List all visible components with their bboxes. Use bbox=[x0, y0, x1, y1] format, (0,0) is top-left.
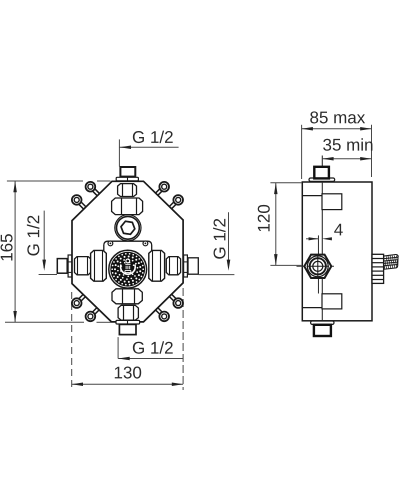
left G1/2 leader horizontal tick bbox=[39, 274, 57, 276]
octagonal plate outline bbox=[72, 181, 183, 322]
bottom-left compartment line bbox=[302, 307, 322, 309]
plug hex socket bbox=[121, 221, 135, 234]
left inlet: stub bbox=[57, 259, 67, 274]
bottom stub bbox=[119, 324, 136, 334]
bottom nut 1 bbox=[118, 305, 138, 320]
mounting ear TR-B bbox=[167, 199, 177, 209]
dimension 85 line with arrows bbox=[302, 128, 372, 130]
side bottom stub (thick) bbox=[314, 325, 331, 336]
bottom flange bbox=[116, 320, 140, 324]
left inlet: washer bbox=[68, 255, 72, 277]
label 4 bbox=[334, 224, 343, 236]
dimension 4 arrows bbox=[306, 238, 318, 240]
hex union bbox=[304, 255, 331, 278]
label G 1/2 (left, rotated) bbox=[27, 216, 39, 256]
hex union centerline horizontal bbox=[297, 265, 335, 267]
label 35 min bbox=[323, 138, 372, 150]
hex union centerline vertical bbox=[317, 235, 319, 293]
body rectangle bbox=[302, 182, 372, 321]
top fixing tab bbox=[322, 194, 342, 210]
label 85 max bbox=[310, 111, 365, 123]
central knob knurled annulus bbox=[110, 252, 145, 287]
valve body plate (rounded shoulders behind cartridge) bbox=[104, 241, 152, 266]
right stub bbox=[188, 258, 198, 274]
wall plane line bbox=[321, 156, 323, 321]
dimension 130 left extension line (dashed) bbox=[71, 292, 73, 390]
splined block bbox=[372, 254, 384, 283]
label 130 bbox=[115, 367, 141, 379]
dimension 165 line with arrows bbox=[14, 181, 16, 322]
label G 1/2 (bottom) bbox=[133, 341, 173, 353]
dimension 165 top extension line bbox=[7, 180, 83, 182]
bottom outlet: nut 2 (large) bbox=[112, 289, 142, 304]
label 120 (rotated) bbox=[258, 205, 270, 231]
top G1/2 leader horizontal line bbox=[119, 146, 178, 148]
mounting ear BR-B bbox=[156, 306, 166, 316]
dimension 165 bottom extension line bbox=[5, 321, 84, 323]
dimension 85 extension lines bbox=[301, 125, 303, 179]
dimension 120 line with arrows bbox=[275, 183, 277, 266]
right G1/2 leader horizontal tick bbox=[199, 274, 235, 276]
dimension 35 line with arrows bbox=[322, 158, 371, 160]
bottom fixing tab bbox=[322, 294, 342, 309]
label 165 (rotated) bbox=[1, 234, 13, 260]
label G 1/2 (top) bbox=[133, 131, 173, 143]
left nut A bbox=[75, 257, 91, 275]
screw left bbox=[108, 241, 113, 246]
dimension 130 line with arrows bbox=[72, 383, 183, 385]
central knob outer circle bbox=[109, 250, 147, 288]
top flange facet line bbox=[127, 178, 129, 181]
side top stub base bbox=[309, 178, 335, 181]
top nut 2 facets bbox=[121, 198, 123, 214]
spindle shaft (knurled) bbox=[384, 254, 398, 269]
top flange bbox=[116, 177, 138, 181]
top G1/2 leader arrowhead bbox=[119, 146, 131, 150]
top inlet stub bbox=[120, 167, 135, 177]
mounting ear BR-A bbox=[170, 292, 180, 302]
right outlet: nut B (coupling) bbox=[149, 250, 165, 281]
top nut 2 (large coupling) bbox=[112, 198, 143, 215]
side top stub (thick) bbox=[314, 167, 329, 179]
dimension 120 extension lines bbox=[270, 182, 302, 184]
top nut 1 facets bbox=[122, 184, 124, 197]
side bottom stub flange bbox=[311, 321, 334, 324]
top nut 1 bbox=[118, 184, 137, 197]
top G1/2 leader vertical line bbox=[118, 139, 120, 166]
knob centre icon bbox=[126, 259, 130, 263]
left G1/2 leader vertical line with arrow bbox=[43, 211, 45, 268]
plug escutcheon circle bbox=[115, 215, 141, 241]
screw right bbox=[143, 241, 148, 246]
top-left compartment line bbox=[302, 195, 322, 197]
dimension 130 right extension line (dashed) bbox=[182, 288, 184, 390]
right G1/2 leader vertical line with arrow bbox=[228, 212, 230, 268]
right washer bbox=[184, 255, 188, 277]
mounting ear TR-A bbox=[153, 186, 163, 196]
label G 1/2 (right, rotated) bbox=[213, 219, 225, 259]
mounting ear TL-B bbox=[76, 201, 86, 211]
left nut B (coupling) bbox=[91, 250, 107, 281]
bottom G1/2 leader vertical line bbox=[117, 337, 119, 358]
bottom G1/2 leader arrowhead bbox=[118, 357, 130, 361]
right nut A bbox=[166, 257, 180, 275]
mounting ear BL-B bbox=[92, 308, 102, 318]
mounting ear BL-A bbox=[78, 294, 88, 304]
mounting ear TL-A bbox=[89, 188, 99, 198]
bottom G1/2 leader horizontal line bbox=[118, 358, 183, 360]
